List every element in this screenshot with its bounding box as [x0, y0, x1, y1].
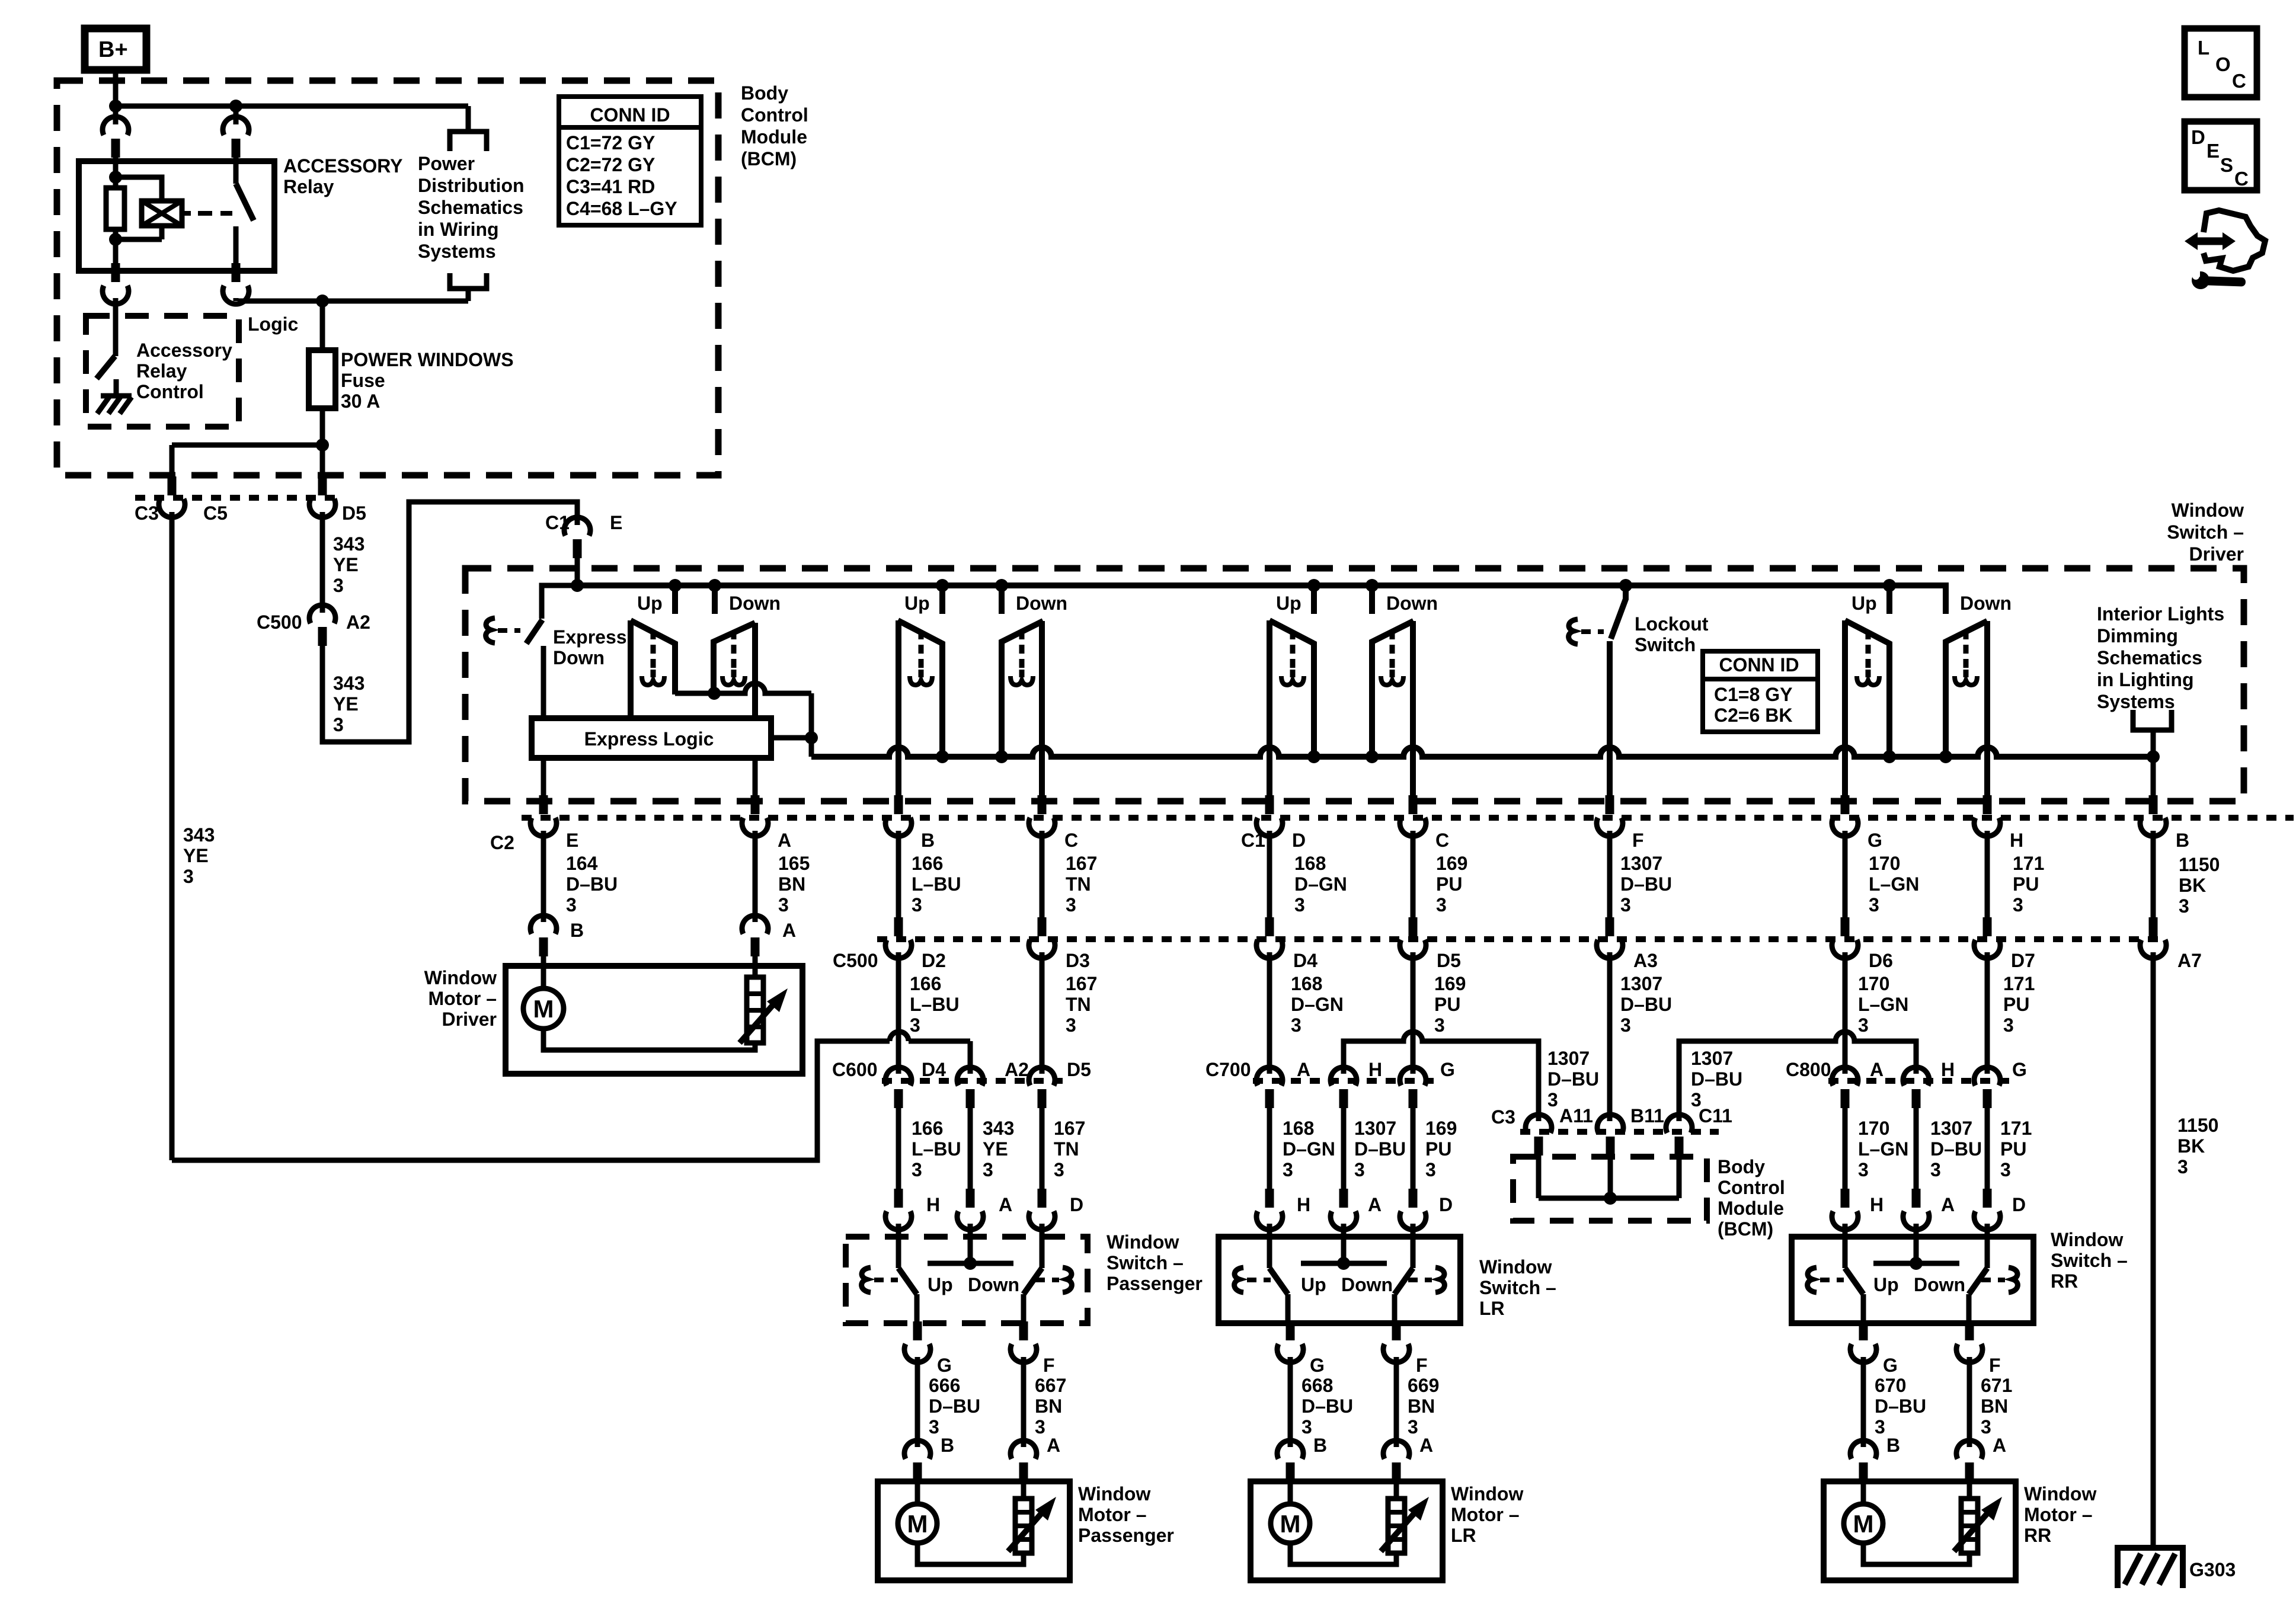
- motor breaker arrow: [1954, 1513, 1988, 1551]
- svg-text:A2: A2: [346, 612, 370, 633]
- driver motor breaker arrow: [740, 1004, 773, 1043]
- svg-text:A: A: [1993, 1435, 2006, 1456]
- svg-text:3: 3: [1858, 1014, 1869, 1036]
- svg-text:C1: C1: [1241, 830, 1265, 851]
- relay switch pin connector: [234, 106, 239, 124]
- svg-text:3: 3: [2000, 1159, 2011, 1180]
- svg-text:L–GN: L–GN: [1869, 873, 1919, 895]
- svg-text:(BCM): (BCM): [741, 148, 797, 169]
- svg-text:G: G: [1310, 1355, 1325, 1376]
- wire bus to B connector: [2151, 757, 2156, 796]
- svg-text:Down: Down: [553, 647, 605, 668]
- svg-text:166: 166: [912, 853, 943, 874]
- svg-text:Window: Window: [2051, 1229, 2123, 1250]
- connector C3/C5: [168, 476, 177, 495]
- svg-text:3: 3: [1434, 1014, 1445, 1036]
- svg-text:CONN ID: CONN ID: [590, 104, 670, 126]
- svg-text:Window: Window: [1479, 1256, 1552, 1278]
- svg-text:3: 3: [1066, 894, 1076, 916]
- svg-text:3: 3: [1054, 1159, 1064, 1180]
- svg-text:3: 3: [183, 866, 194, 887]
- svg-text:D: D: [2191, 126, 2205, 148]
- wire 169 to C700 G: [1411, 952, 1416, 1074]
- svg-text:1150: 1150: [2179, 854, 2220, 875]
- switch flag up driver: [631, 620, 675, 694]
- svg-text:3: 3: [333, 714, 344, 735]
- C700 dotted connector line: [1253, 1078, 1435, 1084]
- svg-text:167: 167: [1054, 1118, 1085, 1139]
- window switch box RR: [1792, 1237, 2033, 1323]
- wire C column to C600: [1040, 952, 1045, 1074]
- BCM dotted connector line: [1520, 1129, 1719, 1135]
- wires to motor: [1288, 1357, 1293, 1447]
- motor breaker arrow: [1008, 1513, 1042, 1551]
- svg-text:TN: TN: [1054, 1138, 1079, 1160]
- connector C500 pin D5: [1409, 917, 1418, 936]
- svg-text:A: A: [1368, 1194, 1382, 1215]
- svg-text:C1=8 GY: C1=8 GY: [1714, 684, 1793, 705]
- express logic box: [532, 718, 771, 758]
- wire 170 to C800 A: [1843, 952, 1848, 1074]
- svg-text:667: 667: [1035, 1375, 1066, 1396]
- svg-text:D–BU: D–BU: [1620, 994, 1672, 1015]
- svg-text:C700: C700: [1205, 1059, 1251, 1080]
- svg-text:Window: Window: [1107, 1231, 1179, 1253]
- svg-text:CONN ID: CONN ID: [1719, 654, 1799, 676]
- motor M circle: [1861, 1479, 1866, 1503]
- connector motor B: [904, 1441, 930, 1459]
- svg-text:Body: Body: [741, 82, 788, 104]
- svg-text:3: 3: [983, 1159, 993, 1180]
- connector motor A: [1383, 1441, 1409, 1459]
- svg-text:BN: BN: [1408, 1395, 1435, 1417]
- svg-text:343: 343: [183, 824, 215, 846]
- svg-text:D–BU: D–BU: [929, 1395, 980, 1417]
- svg-text:E: E: [610, 512, 622, 533]
- svg-text:B+: B+: [98, 37, 128, 62]
- svg-text:PU: PU: [2013, 873, 2039, 895]
- wire 343 long run to C600: [172, 1041, 890, 1160]
- svg-text:B: B: [1313, 1435, 1327, 1456]
- svg-text:PU: PU: [1436, 873, 1462, 895]
- svg-text:TN: TN: [1066, 994, 1091, 1015]
- connector C600 pin A2: [957, 1067, 983, 1086]
- svg-text:Relay: Relay: [136, 360, 187, 382]
- svg-text:Down: Down: [1341, 1274, 1393, 1295]
- connector C800 pin A: [1832, 1067, 1858, 1086]
- driver motor bottom loop: [543, 1029, 755, 1050]
- svg-text:C3=41 RD: C3=41 RD: [566, 176, 655, 197]
- svg-text:Up: Up: [928, 1274, 953, 1295]
- connector C500 pin D6: [1841, 917, 1850, 936]
- svg-text:ACCESSORY: ACCESSORY: [283, 155, 403, 177]
- svg-text:3: 3: [1283, 1159, 1293, 1180]
- svg-text:3: 3: [2177, 1156, 2188, 1177]
- connector motor B: [1277, 1441, 1303, 1459]
- connector row1 pin F: [1606, 795, 1614, 814]
- svg-text:L–BU: L–BU: [912, 873, 961, 895]
- wire into driver switch: [575, 558, 580, 585]
- svg-text:Module: Module: [741, 126, 807, 148]
- switch flag up passenger: [898, 620, 942, 757]
- svg-text:Schematics: Schematics: [418, 197, 523, 218]
- svg-text:Module: Module: [1718, 1198, 1784, 1219]
- C600 dotted connector line: [882, 1078, 1064, 1084]
- svg-text:YE: YE: [333, 554, 359, 575]
- svg-text:C1: C1: [545, 512, 570, 533]
- wire 343 YE to C500: [170, 512, 175, 1160]
- svg-text:PU: PU: [2003, 994, 2029, 1015]
- CONN ID table BCM: [559, 97, 701, 225]
- BCM internal wires: [1536, 1156, 1542, 1198]
- wire fuse output to D5: [320, 445, 325, 478]
- svg-text:F: F: [1416, 1355, 1428, 1376]
- wires to motor: [915, 1357, 920, 1447]
- BCM middle dashed box: [1513, 1157, 1707, 1221]
- svg-text:168: 168: [1283, 1118, 1314, 1139]
- svg-text:1150: 1150: [2177, 1115, 2218, 1136]
- motor bottom loop: [1863, 1543, 1969, 1564]
- wire A2 to window switch C1-E: [322, 502, 577, 742]
- svg-text:Up: Up: [904, 593, 930, 614]
- switch flag down driver: [714, 623, 755, 694]
- svg-text:166: 166: [910, 973, 941, 994]
- motor bottom loop: [917, 1543, 1024, 1564]
- svg-text:PU: PU: [2000, 1138, 2026, 1160]
- connector switch pin D: [1409, 1189, 1418, 1208]
- switch pins into box: [896, 1224, 901, 1268]
- svg-text:A: A: [1419, 1435, 1433, 1456]
- wire interior lights to bus: [2151, 730, 2156, 757]
- svg-text:E: E: [566, 830, 578, 851]
- svg-text:168: 168: [1294, 853, 1326, 874]
- svg-text:C: C: [1435, 830, 1449, 851]
- svg-text:Down: Down: [1914, 1274, 1965, 1295]
- svg-text:D–BU: D–BU: [566, 873, 618, 895]
- express down switch: [542, 585, 577, 619]
- svg-text:171: 171: [2013, 853, 2044, 874]
- svg-text:Switch –: Switch –: [2167, 521, 2244, 543]
- svg-text:3: 3: [1294, 894, 1305, 916]
- LOC icon box: [2185, 28, 2257, 97]
- svg-text:E: E: [2207, 140, 2220, 162]
- wire E to driver motor: [541, 831, 546, 922]
- wire up flag to express logic: [628, 620, 634, 721]
- relay switch bottom connector: [232, 271, 241, 279]
- svg-text:671: 671: [1981, 1375, 2012, 1396]
- switch flag up passenger outer wire: [896, 620, 901, 796]
- wire to door switch: [1843, 1108, 1848, 1191]
- wire logic bus to fuse: [320, 301, 325, 350]
- svg-text:B11: B11: [1630, 1105, 1664, 1126]
- wire 1150 BK to ground: [2151, 952, 2156, 1547]
- svg-text:Up: Up: [637, 593, 663, 614]
- svg-text:BN: BN: [1981, 1395, 2008, 1417]
- svg-text:LR: LR: [1479, 1298, 1505, 1319]
- svg-text:F: F: [1043, 1355, 1055, 1376]
- wire 171 to C800 G: [1985, 952, 1990, 1074]
- svg-text:D–GN: D–GN: [1283, 1138, 1335, 1160]
- svg-text:Up: Up: [1873, 1274, 1899, 1295]
- svg-text:Motor –: Motor –: [428, 988, 497, 1009]
- svg-text:B: B: [570, 920, 584, 941]
- svg-text:1307: 1307: [1354, 1118, 1396, 1139]
- relay switch contact: [234, 158, 239, 184]
- svg-text:3: 3: [1291, 1014, 1302, 1036]
- switch flag down LR outer wire: [1410, 621, 1416, 796]
- connector BCM pin B11: [1597, 1115, 1623, 1133]
- svg-text:YE: YE: [983, 1138, 1008, 1160]
- svg-text:Express: Express: [553, 626, 627, 648]
- connector switch pin H: [1841, 1189, 1850, 1208]
- svg-text:D: D: [2012, 1194, 2026, 1215]
- svg-text:Window: Window: [2024, 1483, 2096, 1505]
- switch flag up RR: [1845, 620, 1889, 757]
- svg-text:171: 171: [2003, 973, 2035, 994]
- svg-text:in Wiring: in Wiring: [418, 219, 499, 240]
- svg-text:C500: C500: [833, 950, 878, 971]
- switch flag up LR outer wire: [1267, 620, 1272, 796]
- window switch box LR: [1219, 1237, 1460, 1323]
- svg-text:BN: BN: [1035, 1395, 1062, 1417]
- svg-text:H: H: [2010, 830, 2023, 851]
- motor M circle: [1288, 1479, 1293, 1503]
- hop over 166 wire: [890, 1032, 909, 1041]
- svg-text:3: 3: [2003, 1014, 2014, 1036]
- connector F below switch: [1392, 1321, 1401, 1340]
- svg-text:Up: Up: [1276, 593, 1302, 614]
- interior lights bracket: [2133, 710, 2172, 730]
- svg-text:C11: C11: [1699, 1105, 1732, 1126]
- svg-text:M: M: [1853, 1510, 1874, 1538]
- svg-text:669: 669: [1408, 1375, 1439, 1396]
- wire bus to relay and power distribution: [116, 104, 468, 109]
- DESC icon box: [2185, 121, 2257, 190]
- connector switch pin H: [894, 1189, 903, 1208]
- pair1 link line with hop: [675, 683, 811, 693]
- svg-text:Schematics: Schematics: [2097, 647, 2202, 668]
- motor bottom loop: [1290, 1543, 1396, 1564]
- connector C700 pin A: [1256, 1067, 1283, 1086]
- switch flag down passenger outer wire: [1039, 621, 1045, 796]
- window motor driver box: [506, 966, 802, 1074]
- svg-text:B: B: [941, 1435, 954, 1456]
- svg-text:YE: YE: [183, 845, 209, 866]
- svg-text:666: 666: [929, 1375, 960, 1396]
- connector motor A: [1011, 1441, 1037, 1459]
- svg-text:G: G: [1440, 1059, 1455, 1080]
- svg-text:D4: D4: [1293, 950, 1318, 971]
- svg-text:Control: Control: [741, 104, 808, 126]
- svg-text:164: 164: [566, 853, 598, 874]
- ground stub: [114, 379, 119, 396]
- svg-text:C600: C600: [832, 1059, 878, 1080]
- svg-text:1307: 1307: [1691, 1048, 1733, 1069]
- svg-text:170: 170: [1858, 973, 1889, 994]
- connector switch pin A: [1912, 1189, 1921, 1208]
- relay solenoid X-box: [142, 201, 182, 226]
- window switch driver dashed box: [465, 568, 2244, 801]
- connector switch pin D: [1038, 1189, 1047, 1208]
- switch output wires: [1285, 1294, 1291, 1323]
- svg-text:C2: C2: [490, 832, 514, 853]
- wire B+ down into BCM: [113, 70, 119, 106]
- connector row1 pin G: [1841, 795, 1850, 814]
- svg-text:171: 171: [2000, 1118, 2032, 1139]
- connector C500 pin D7: [1983, 917, 1992, 936]
- node stub pair2: [995, 579, 1008, 592]
- mech link curlies: [1235, 1267, 1243, 1292]
- node up stub pair1: [669, 579, 682, 592]
- svg-text:A: A: [782, 920, 796, 941]
- svg-text:Switch –: Switch –: [2051, 1250, 2128, 1271]
- svg-text:B: B: [921, 830, 935, 851]
- switch flag down RR outer wire: [1984, 621, 1990, 796]
- top bus: [577, 585, 1946, 614]
- switch output wires: [1861, 1294, 1866, 1323]
- svg-text:3: 3: [1302, 1416, 1312, 1438]
- wire to door switch: [1040, 1108, 1045, 1191]
- svg-text:RR: RR: [2024, 1525, 2051, 1546]
- svg-text:3: 3: [1425, 1159, 1436, 1180]
- svg-text:3: 3: [333, 575, 344, 596]
- svg-text:B: B: [1886, 1435, 1900, 1456]
- connector BCM pin A11: [1526, 1115, 1552, 1133]
- svg-text:Control: Control: [136, 381, 204, 402]
- connector motor B: [1850, 1441, 1876, 1459]
- svg-text:Passenger: Passenger: [1078, 1525, 1174, 1546]
- svg-text:Dimming: Dimming: [2097, 625, 2178, 646]
- svg-text:Down: Down: [1960, 593, 2012, 614]
- svg-text:TN: TN: [1066, 873, 1091, 895]
- svg-text:3: 3: [1930, 1159, 1941, 1180]
- svg-text:Relay: Relay: [283, 176, 334, 197]
- svg-text:Systems: Systems: [2097, 691, 2175, 712]
- switch pins into box: [1267, 1224, 1272, 1268]
- svg-text:H: H: [926, 1194, 940, 1215]
- svg-text:A2: A2: [1005, 1059, 1029, 1080]
- svg-text:3: 3: [912, 1159, 922, 1180]
- connector C800 pin H: [1903, 1067, 1929, 1086]
- svg-text:Switch –: Switch –: [1107, 1252, 1184, 1273]
- connector driver motor B: [530, 916, 557, 934]
- svg-text:D–BU: D–BU: [1930, 1138, 1982, 1160]
- svg-text:Up: Up: [1301, 1274, 1326, 1295]
- accessory relay control switch blade: [97, 356, 115, 379]
- node fuse tap: [316, 295, 329, 308]
- connector C700 pin G: [1400, 1067, 1426, 1086]
- wires to motor: [1861, 1357, 1866, 1447]
- svg-text:in Lighting: in Lighting: [2097, 669, 2194, 690]
- svg-text:Switch: Switch: [1635, 634, 1696, 655]
- svg-text:Logic: Logic: [248, 313, 298, 335]
- svg-text:3: 3: [778, 894, 789, 916]
- wire to door switch: [1985, 1108, 1990, 1191]
- svg-text:C: C: [1064, 830, 1078, 851]
- connector C500 pin D3: [1038, 917, 1047, 936]
- window motor box RR: [1824, 1481, 2016, 1580]
- switch flag down passenger: [1002, 621, 1043, 757]
- accessory relay control dashed box: [86, 316, 239, 427]
- svg-text:G: G: [1883, 1355, 1898, 1376]
- connector row1 pin H: [1983, 795, 1992, 814]
- connector row1 pin A: [751, 795, 760, 814]
- svg-text:3: 3: [1066, 1014, 1076, 1036]
- wire branch to C5: [172, 443, 322, 448]
- svg-text:343: 343: [983, 1118, 1014, 1139]
- svg-text:170: 170: [1869, 853, 1900, 874]
- svg-text:Driver: Driver: [2189, 543, 2244, 565]
- svg-text:Distribution: Distribution: [418, 175, 525, 196]
- connector switch pin H: [1265, 1189, 1274, 1208]
- driver motor M circle: [541, 966, 546, 988]
- svg-text:670: 670: [1875, 1375, 1906, 1396]
- svg-text:3: 3: [2013, 894, 2023, 916]
- motor circuit breaker: [1394, 1479, 1399, 1499]
- svg-text:3: 3: [1620, 1014, 1631, 1036]
- svg-text:S: S: [2220, 154, 2233, 176]
- svg-text:3: 3: [1035, 1416, 1045, 1438]
- svg-text:D: D: [1070, 1194, 1083, 1215]
- switch blade up: [898, 1268, 917, 1294]
- connector C800 pin G: [1974, 1067, 2000, 1086]
- svg-text:D–GN: D–GN: [1291, 994, 1344, 1015]
- svg-text:D–BU: D–BU: [1302, 1395, 1353, 1417]
- connector driver motor A: [742, 916, 768, 934]
- svg-text:PU: PU: [1434, 994, 1460, 1015]
- svg-text:3: 3: [2179, 895, 2189, 917]
- svg-text:Lockout: Lockout: [1635, 613, 1709, 635]
- svg-text:167: 167: [1066, 853, 1097, 874]
- svg-text:30 A: 30 A: [341, 391, 380, 412]
- node B+ bus: [109, 100, 122, 113]
- express logic outputs to C2 connectors: [541, 758, 546, 796]
- switch blade down: [1395, 1268, 1413, 1294]
- svg-text:343: 343: [333, 673, 364, 694]
- svg-text:3: 3: [1547, 1089, 1558, 1110]
- wires row1 to C500: [896, 831, 901, 918]
- node lockout stub: [1619, 579, 1632, 592]
- motor circuit breaker: [1967, 1479, 1972, 1499]
- window motor box LR: [1251, 1481, 1443, 1580]
- svg-text:3: 3: [1354, 1159, 1365, 1180]
- svg-text:C3: C3: [135, 502, 159, 524]
- svg-text:C4=68 L–GY: C4=68 L–GY: [566, 198, 677, 219]
- svg-text:L–BU: L–BU: [910, 994, 960, 1015]
- wire to door switch: [1914, 1108, 1919, 1191]
- switch common bar: [1301, 1261, 1387, 1266]
- svg-text:Motor –: Motor –: [1451, 1504, 1520, 1525]
- svg-text:C1=72 GY: C1=72 GY: [566, 132, 655, 153]
- svg-text:3: 3: [566, 894, 577, 916]
- express logic output stub: [771, 735, 811, 741]
- svg-text:668: 668: [1302, 1375, 1333, 1396]
- connector C500 pin A3: [1606, 917, 1614, 936]
- svg-text:168: 168: [1291, 973, 1322, 994]
- mech link curlies: [862, 1267, 871, 1292]
- wire to door switch: [1341, 1108, 1347, 1191]
- connector switch pin A: [1339, 1189, 1348, 1208]
- svg-text:D: D: [1439, 1194, 1453, 1215]
- wire to door switch: [968, 1108, 973, 1191]
- connector row1 pin E: [539, 795, 548, 814]
- svg-text:Control: Control: [1718, 1177, 1785, 1198]
- node stub pair2: [936, 579, 949, 592]
- svg-text:C800: C800: [1786, 1059, 1831, 1080]
- switch blade up: [1269, 1268, 1288, 1294]
- connector C500 pin D2: [894, 917, 903, 936]
- svg-text:Power: Power: [418, 153, 475, 174]
